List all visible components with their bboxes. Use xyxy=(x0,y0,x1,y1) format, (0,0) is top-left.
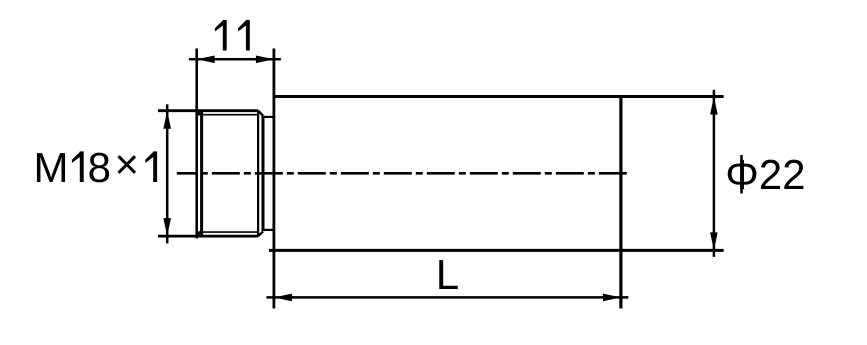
neck outline lines xyxy=(263,117,274,230)
dimension 11 label xyxy=(215,20,250,51)
dimension L label xyxy=(439,260,458,289)
thread runout second line xyxy=(262,116,265,232)
dimension Phi22 line xyxy=(710,90,718,257)
centerline (axis) xyxy=(177,172,629,175)
body cylinder outline xyxy=(269,49,724,309)
thread chamfer edge line xyxy=(200,111,203,236)
dimension M18x1 line xyxy=(163,104,171,243)
dimension L line xyxy=(266,294,628,302)
thread runout line xyxy=(257,111,259,236)
thread minor diameter lines xyxy=(197,115,259,232)
thread right chamfer diagonals xyxy=(258,111,263,236)
dimension 11 line xyxy=(189,56,281,64)
thread left chamfer diagonals xyxy=(197,111,202,236)
dimension Phi22 label xyxy=(728,155,804,194)
thread end face line xyxy=(195,49,198,239)
dimension M18x1 label xyxy=(37,151,157,182)
thread major diameter lines xyxy=(158,111,258,236)
